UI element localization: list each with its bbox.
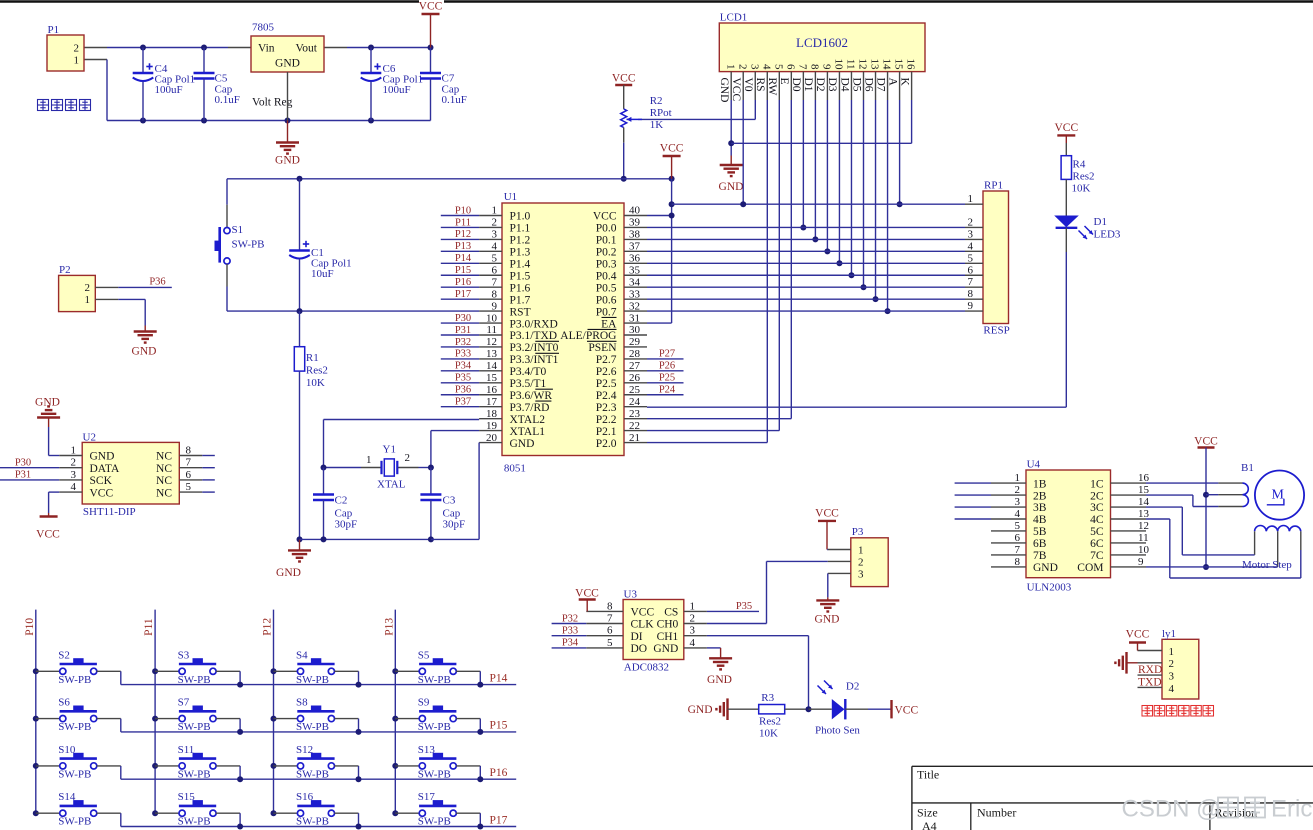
- svg-text:8: 8: [492, 288, 498, 300]
- svg-text:D7: D7: [874, 78, 886, 92]
- svg-text:P34: P34: [562, 638, 579, 649]
- svg-text:Photo Sen: Photo Sen: [815, 725, 860, 737]
- svg-text:13: 13: [486, 348, 498, 360]
- svg-text:GND: GND: [90, 451, 115, 463]
- sensor U2 SHT11-DIP: [59, 432, 215, 519]
- ground symbol LCD: [719, 156, 744, 194]
- svg-text:D2: D2: [814, 78, 826, 92]
- wire VCC tap to winding A center: [1206, 494, 1218, 496]
- svg-text:P14: P14: [455, 253, 472, 264]
- power VCC motor supply: [1194, 436, 1218, 571]
- svg-text:1: 1: [858, 545, 864, 557]
- svg-text:VCC: VCC: [36, 529, 60, 541]
- adc U3 ADC0832: [586, 589, 707, 674]
- svg-text:2: 2: [405, 452, 411, 464]
- wire/net label P26 at U1 right: [647, 361, 684, 372]
- svg-text:30pF: 30pF: [335, 518, 358, 530]
- svg-text:6: 6: [784, 64, 796, 70]
- svg-text:K: K: [898, 78, 910, 87]
- svg-text:37: 37: [629, 241, 641, 253]
- wire keypad row P15: [121, 720, 516, 735]
- svg-text:14: 14: [1138, 496, 1150, 508]
- svg-text:4C: 4C: [1090, 514, 1104, 526]
- wire COM to winding B center: [1146, 566, 1278, 568]
- wire LCD D6 to P0.6: [873, 100, 879, 302]
- switch S15 SW-PB: [155, 791, 240, 828]
- svg-text:13: 13: [1138, 508, 1150, 520]
- wire/net label P35 at U3 CS: [707, 601, 759, 612]
- svg-text:P0.6: P0.6: [596, 294, 617, 306]
- svg-text:D1: D1: [1094, 216, 1107, 228]
- svg-text:S11: S11: [178, 744, 195, 756]
- svg-text:VCC: VCC: [1126, 629, 1150, 641]
- svg-text:100uF: 100uF: [383, 84, 411, 96]
- svg-text:P32: P32: [455, 337, 471, 348]
- wire crystal ground rail: [300, 536, 434, 542]
- svg-text:5: 5: [186, 481, 192, 493]
- svg-text:P0.5: P0.5: [596, 282, 617, 294]
- wire R2 bottom to VCC rail: [621, 143, 627, 182]
- svg-text:LCD1: LCD1: [720, 12, 748, 24]
- svg-text:2: 2: [968, 216, 974, 228]
- diode D2 Photo Sen: [809, 681, 891, 737]
- svg-text:P26: P26: [659, 361, 675, 372]
- wire keypad column P11: [143, 610, 158, 817]
- wire/net label P11 at U1 pin 2: [441, 217, 479, 228]
- svg-text:27: 27: [629, 360, 641, 372]
- svg-text:17: 17: [486, 396, 498, 408]
- svg-text:C3: C3: [443, 494, 456, 506]
- wire U3 GND pin4: [707, 647, 721, 649]
- svg-text:20: 20: [486, 432, 498, 444]
- svg-text:P34: P34: [455, 361, 472, 372]
- svg-text:VCC: VCC: [593, 211, 617, 223]
- svg-text:1K: 1K: [650, 119, 664, 131]
- wire input stub U4 pin 2: [955, 494, 991, 496]
- svg-text:5C: 5C: [1090, 526, 1104, 538]
- svg-text:R1: R1: [306, 352, 319, 364]
- wire bottom ground rail: [84, 60, 431, 124]
- switch S9 SW-PB: [395, 697, 480, 734]
- svg-text:4: 4: [1015, 508, 1021, 520]
- svg-text:14: 14: [486, 360, 498, 372]
- svg-text:4: 4: [968, 240, 974, 252]
- crystal Y1 XTAL: [321, 444, 434, 491]
- svg-text:D4: D4: [838, 78, 850, 92]
- net label TXD: [1138, 677, 1162, 689]
- svg-text:S1: S1: [232, 224, 244, 236]
- wire LCD D3 to P0.3: [836, 100, 842, 266]
- svg-text:P36: P36: [455, 385, 471, 396]
- svg-text:7805: 7805: [252, 22, 275, 34]
- svg-text:1: 1: [1015, 472, 1021, 484]
- switch S16 SW-PB: [274, 791, 359, 828]
- svg-text:GND: GND: [132, 346, 157, 358]
- wire/net label P10 at U1 pin 1: [441, 205, 479, 216]
- motor B1 Motor Step: [1218, 462, 1304, 571]
- wire 3C to winding B left: [1146, 507, 1255, 555]
- svg-text:P1.1: P1.1: [510, 223, 531, 235]
- svg-text:Title: Title: [917, 768, 939, 782]
- watermark: [1122, 796, 1313, 823]
- power VCC above R4: [1054, 122, 1078, 156]
- svg-text:RW: RW: [766, 78, 778, 96]
- svg-text:4: 4: [690, 637, 696, 649]
- wire input stub U4 pin 3: [955, 506, 991, 508]
- wire LCD D5 to P0.5: [860, 100, 866, 290]
- connector P2: [59, 264, 119, 312]
- svg-text:13: 13: [869, 59, 881, 71]
- svg-text:E: E: [778, 78, 790, 85]
- capacitor C7 Cap 0.1uF: [420, 48, 467, 121]
- wire VCC down to U1 pin40 and EA: [647, 179, 675, 323]
- svg-text:P3.1/TXD: P3.1/TXD: [510, 330, 558, 342]
- svg-text:3: 3: [71, 469, 77, 481]
- svg-text:P3.7/RD: P3.7/RD: [510, 402, 550, 414]
- svg-text:P1.5: P1.5: [510, 270, 531, 282]
- ground symbol P2: [132, 326, 157, 358]
- switch S5 SW-PB: [395, 649, 480, 686]
- svg-text:Size: Size: [917, 806, 938, 820]
- svg-text:XTAL2: XTAL2: [510, 414, 546, 426]
- svg-text:5: 5: [772, 64, 784, 70]
- svg-text:P3.3/INT1: P3.3/INT1: [510, 354, 559, 366]
- svg-text:SW-PB: SW-PB: [58, 721, 91, 733]
- wire input stub U4 pin 4: [955, 518, 991, 520]
- svg-text:23: 23: [629, 408, 641, 420]
- wire D1 cathode to P2.3: [647, 228, 1066, 407]
- svg-text:5: 5: [1015, 520, 1021, 532]
- svg-text:31: 31: [629, 312, 640, 324]
- svg-text:2: 2: [492, 217, 498, 229]
- svg-text:P37: P37: [455, 397, 471, 408]
- wire P0.5 bus U1 to RP1: [647, 286, 965, 288]
- svg-text:B1: B1: [1241, 462, 1254, 474]
- svg-text:3C: 3C: [1090, 502, 1104, 514]
- svg-text:1: 1: [74, 55, 80, 67]
- svg-text:Eric: Eric: [1271, 796, 1312, 823]
- svg-text:Res2: Res2: [759, 716, 781, 728]
- wire/net label P30 at U2 DATA: [0, 458, 59, 469]
- svg-text:6: 6: [1015, 532, 1021, 544]
- svg-text:DATA: DATA: [90, 463, 120, 475]
- svg-text:PSEN: PSEN: [588, 342, 617, 354]
- svg-text:6: 6: [968, 264, 974, 276]
- svg-text:11: 11: [845, 59, 857, 70]
- svg-text:P32: P32: [562, 613, 578, 624]
- svg-text:S17: S17: [418, 791, 436, 803]
- wire LCD D4 to P0.4: [848, 100, 854, 278]
- svg-text:DI: DI: [631, 631, 643, 643]
- wire/net label P25 at U1 right: [647, 373, 684, 384]
- svg-text:P13: P13: [455, 241, 471, 252]
- svg-text:P31: P31: [15, 470, 31, 481]
- svg-text:D6: D6: [862, 78, 874, 92]
- svg-text:P30: P30: [455, 313, 471, 324]
- svg-text:GND: GND: [275, 58, 300, 70]
- svg-text:15: 15: [893, 59, 905, 71]
- ground symbol above U2: [35, 397, 60, 428]
- wire P0.0 bus U1 to RP1: [647, 226, 965, 228]
- svg-text:D5: D5: [850, 78, 862, 92]
- svg-text:P12: P12: [455, 229, 471, 240]
- svg-text:XTAL: XTAL: [377, 479, 406, 491]
- svg-text:EA: EA: [601, 318, 617, 330]
- switch S3 SW-PB: [155, 649, 240, 686]
- svg-text:P33: P33: [562, 626, 578, 637]
- svg-text:P1: P1: [48, 24, 60, 36]
- switch S4 SW-PB: [274, 649, 359, 686]
- net label RXD: [1138, 664, 1162, 676]
- svg-text:P10: P10: [24, 618, 36, 636]
- svg-text:A4: A4: [922, 819, 937, 830]
- svg-text:VCC: VCC: [419, 1, 443, 13]
- wire/net label P35 at U1 pin 15: [441, 373, 479, 384]
- svg-text:22: 22: [629, 420, 640, 432]
- svg-text:M: M: [1272, 488, 1285, 503]
- svg-text:D1: D1: [802, 78, 814, 92]
- wire/net label P17 at U1 pin 8: [441, 289, 479, 300]
- svg-text:D2: D2: [846, 681, 859, 693]
- svg-text:9: 9: [1138, 556, 1144, 568]
- svg-text:10K: 10K: [1072, 183, 1091, 195]
- svg-text:6C: 6C: [1090, 538, 1104, 550]
- svg-text:4: 4: [760, 64, 772, 70]
- capacitor C1 Cap Pol1 10uF: [289, 179, 351, 311]
- power VCC at U3 pin8: [575, 588, 599, 612]
- svg-text:P27: P27: [659, 349, 675, 360]
- svg-text:D3: D3: [826, 78, 838, 92]
- wire/net label P34 at U3: [552, 638, 587, 649]
- svg-text:16: 16: [1138, 472, 1150, 484]
- svg-text:6: 6: [607, 625, 613, 637]
- svg-text:S9: S9: [418, 697, 430, 709]
- svg-text:7B: 7B: [1033, 550, 1047, 562]
- svg-text:NC: NC: [156, 475, 172, 487]
- svg-text:12: 12: [857, 59, 869, 70]
- svg-text:P1.6: P1.6: [510, 282, 531, 294]
- svg-text:RPot: RPot: [650, 107, 672, 119]
- svg-text:U1: U1: [504, 191, 517, 203]
- svg-text:P25: P25: [659, 373, 675, 384]
- svg-text:P2.3: P2.3: [596, 402, 617, 414]
- switch S7 SW-PB: [155, 697, 240, 734]
- svg-text:P35: P35: [736, 601, 752, 612]
- wire/net label P27 at U1 right: [647, 349, 684, 360]
- svg-text:25: 25: [629, 384, 641, 396]
- ground symbol at ly1 pin2 (sideways): [1115, 652, 1137, 674]
- svg-text:VCC: VCC: [1194, 436, 1218, 448]
- svg-text:18: 18: [486, 408, 498, 420]
- svg-text:12: 12: [1138, 520, 1149, 532]
- svg-text:S2: S2: [58, 649, 70, 661]
- wire rail B (RST net): [227, 308, 479, 314]
- svg-text:38: 38: [629, 229, 641, 241]
- svg-text:1: 1: [85, 294, 91, 306]
- svg-text:R2: R2: [650, 95, 663, 107]
- svg-text:P1.2: P1.2: [510, 235, 531, 247]
- svg-text:ADC0832: ADC0832: [624, 662, 669, 674]
- wire/net label P37 at U1 pin 17: [441, 397, 479, 408]
- svg-text:SHT11-DIP: SHT11-DIP: [83, 506, 136, 518]
- switch S2 SW-PB: [36, 649, 121, 686]
- svg-text:3: 3: [492, 229, 498, 241]
- wire P3 pin3 to ground: [827, 573, 829, 597]
- svg-text:P0.0: P0.0: [596, 223, 617, 235]
- diode D1 LED3: [1054, 179, 1121, 240]
- svg-text:10: 10: [1138, 544, 1150, 556]
- svg-text:S14: S14: [58, 791, 76, 803]
- power VCC at ly1 pin1: [1126, 629, 1150, 651]
- svg-text:S4: S4: [296, 649, 308, 661]
- svg-text:U3: U3: [624, 589, 638, 601]
- svg-text:29: 29: [629, 336, 641, 348]
- svg-text:P0.7: P0.7: [596, 306, 617, 318]
- svg-text:2C: 2C: [1090, 490, 1104, 502]
- svg-text:CSDN @: CSDN @: [1122, 796, 1221, 823]
- svg-text:ULN2003: ULN2003: [1027, 582, 1072, 594]
- capacitor C5 Cap 0.1uF: [194, 48, 240, 121]
- svg-text:15: 15: [1138, 484, 1150, 496]
- svg-text:P3.6/WR: P3.6/WR: [510, 390, 553, 402]
- wire P0.1 bus U1 to RP1: [647, 238, 965, 240]
- svg-text:P31: P31: [455, 325, 471, 336]
- wire LCD RS to P2.0: [647, 100, 767, 443]
- svg-text:5: 5: [492, 253, 498, 265]
- resistor R3 Res2 10K: [728, 692, 809, 740]
- svg-text:P2.6: P2.6: [596, 366, 617, 378]
- svg-text:1C: 1C: [1090, 478, 1104, 490]
- svg-text:P2: P2: [59, 264, 71, 276]
- svg-text:2: 2: [690, 613, 696, 625]
- svg-text:9: 9: [492, 300, 498, 312]
- svg-text:RS: RS: [754, 78, 766, 92]
- wire/net label P33 at U3: [552, 626, 587, 637]
- svg-text:GND: GND: [718, 78, 730, 103]
- wire U3 CH1 to photo sensor node: [707, 636, 809, 710]
- wire/net label P24 at U1 right: [647, 384, 684, 395]
- svg-text:10uF: 10uF: [311, 268, 334, 280]
- svg-text:2: 2: [736, 64, 748, 70]
- svg-text:P30: P30: [15, 458, 31, 469]
- svg-text:U2: U2: [83, 432, 96, 444]
- svg-text:R4: R4: [1073, 159, 1086, 171]
- svg-text:S13: S13: [418, 744, 436, 756]
- svg-text:P11: P11: [455, 217, 471, 228]
- svg-text:P3.4/T0: P3.4/T0: [510, 366, 547, 378]
- svg-text:5: 5: [968, 252, 974, 264]
- title block (sheet frame): [912, 766, 1313, 830]
- svg-text:28: 28: [629, 348, 641, 360]
- connector ly1 wireless module: [1138, 628, 1199, 699]
- wire LCD pin3 V0 to potentiometer: [638, 100, 755, 119]
- svg-text:P1.0: P1.0: [510, 211, 531, 223]
- wire/net label P34 at U1 pin 14: [441, 361, 479, 372]
- ground symbol U3: [707, 648, 732, 686]
- svg-text:D0: D0: [790, 78, 802, 92]
- svg-text:P2.4: P2.4: [596, 390, 617, 402]
- wire keypad column P10: [24, 610, 39, 817]
- wire VCC rail to RP1 pin1: [672, 201, 965, 207]
- svg-text:VCC: VCC: [631, 607, 655, 619]
- svg-text:CS: CS: [664, 607, 678, 619]
- driver U4 ULN2003: [991, 459, 1150, 594]
- wire/net label P30 at U1 pin 10: [441, 313, 479, 324]
- ground symbol left of R3 (sideways): [688, 698, 728, 720]
- svg-text:P33: P33: [455, 349, 471, 360]
- power VCC above R2: [612, 73, 636, 86]
- svg-text:10: 10: [833, 59, 845, 71]
- svg-text:0.1uF: 0.1uF: [442, 94, 467, 106]
- svg-text:VCC: VCC: [730, 78, 742, 102]
- svg-text:Motor Step: Motor Step: [1242, 559, 1292, 571]
- wire/net label P12 at U1 pin 3: [441, 229, 479, 240]
- wire LCD K backlight rail: [731, 100, 911, 143]
- svg-text:21: 21: [629, 432, 640, 444]
- svg-text:P0.2: P0.2: [596, 247, 617, 259]
- svg-text:NC: NC: [156, 487, 172, 499]
- svg-text:P1.7: P1.7: [510, 294, 531, 306]
- svg-text:P2.2: P2.2: [596, 414, 617, 426]
- wire/net label P32 at U1 pin 12: [441, 337, 479, 348]
- svg-text:S7: S7: [178, 697, 190, 709]
- svg-text:36: 36: [629, 253, 641, 265]
- svg-text:VCC: VCC: [895, 705, 919, 717]
- label 无线通信模块: [1142, 706, 1214, 717]
- svg-text:3: 3: [748, 64, 760, 70]
- svg-text:39: 39: [629, 217, 641, 229]
- svg-text:GND: GND: [688, 704, 713, 716]
- svg-text:P13: P13: [383, 618, 395, 636]
- connector P1 电源接口: [38, 24, 91, 111]
- svg-text:LCD1602: LCD1602: [796, 35, 848, 50]
- wire top rail Vin: [84, 45, 251, 51]
- switch S11 SW-PB: [155, 744, 240, 781]
- svg-text:VCC: VCC: [90, 487, 114, 499]
- svg-text:Vin: Vin: [258, 43, 275, 55]
- svg-text:ALE/PROG: ALE/PROG: [560, 330, 616, 342]
- wire LCD D1 to P0.1: [812, 100, 818, 242]
- wire P0.7 bus U1 to RP1: [647, 310, 965, 312]
- svg-text:100uF: 100uF: [155, 84, 183, 96]
- svg-text:RXD: RXD: [1138, 664, 1162, 676]
- svg-text:3: 3: [968, 228, 974, 240]
- svg-text:S10: S10: [58, 744, 76, 756]
- svg-text:P3: P3: [852, 526, 864, 538]
- svg-text:7: 7: [1015, 544, 1021, 556]
- svg-text:2: 2: [858, 557, 864, 569]
- svg-text:P15: P15: [455, 265, 471, 276]
- svg-text:8051: 8051: [504, 463, 526, 475]
- svg-text:P3.0/RXD: P3.0/RXD: [510, 318, 558, 330]
- svg-text:9: 9: [821, 64, 833, 70]
- svg-text:XTAL1: XTAL1: [510, 426, 546, 438]
- wire/net label P15 at U1 pin 6: [441, 265, 479, 276]
- svg-text:SW-PB: SW-PB: [58, 816, 91, 828]
- svg-text:VCC: VCC: [575, 588, 599, 600]
- svg-text:7: 7: [186, 457, 192, 469]
- wire LCD A backlight to VCC rail: [897, 100, 903, 207]
- svg-text:NC: NC: [156, 451, 172, 463]
- svg-text:7C: 7C: [1090, 550, 1104, 562]
- svg-text:2B: 2B: [1033, 490, 1047, 502]
- svg-text:RESP: RESP: [983, 325, 1009, 337]
- switch S1 SW-PB (reset): [215, 179, 265, 311]
- svg-text:P2.7: P2.7: [596, 354, 617, 366]
- svg-text:VCC: VCC: [660, 143, 684, 155]
- capacitor C6 Cap Pol1 100uF: [361, 48, 423, 121]
- wire U2 pin1 to ground above: [49, 427, 60, 456]
